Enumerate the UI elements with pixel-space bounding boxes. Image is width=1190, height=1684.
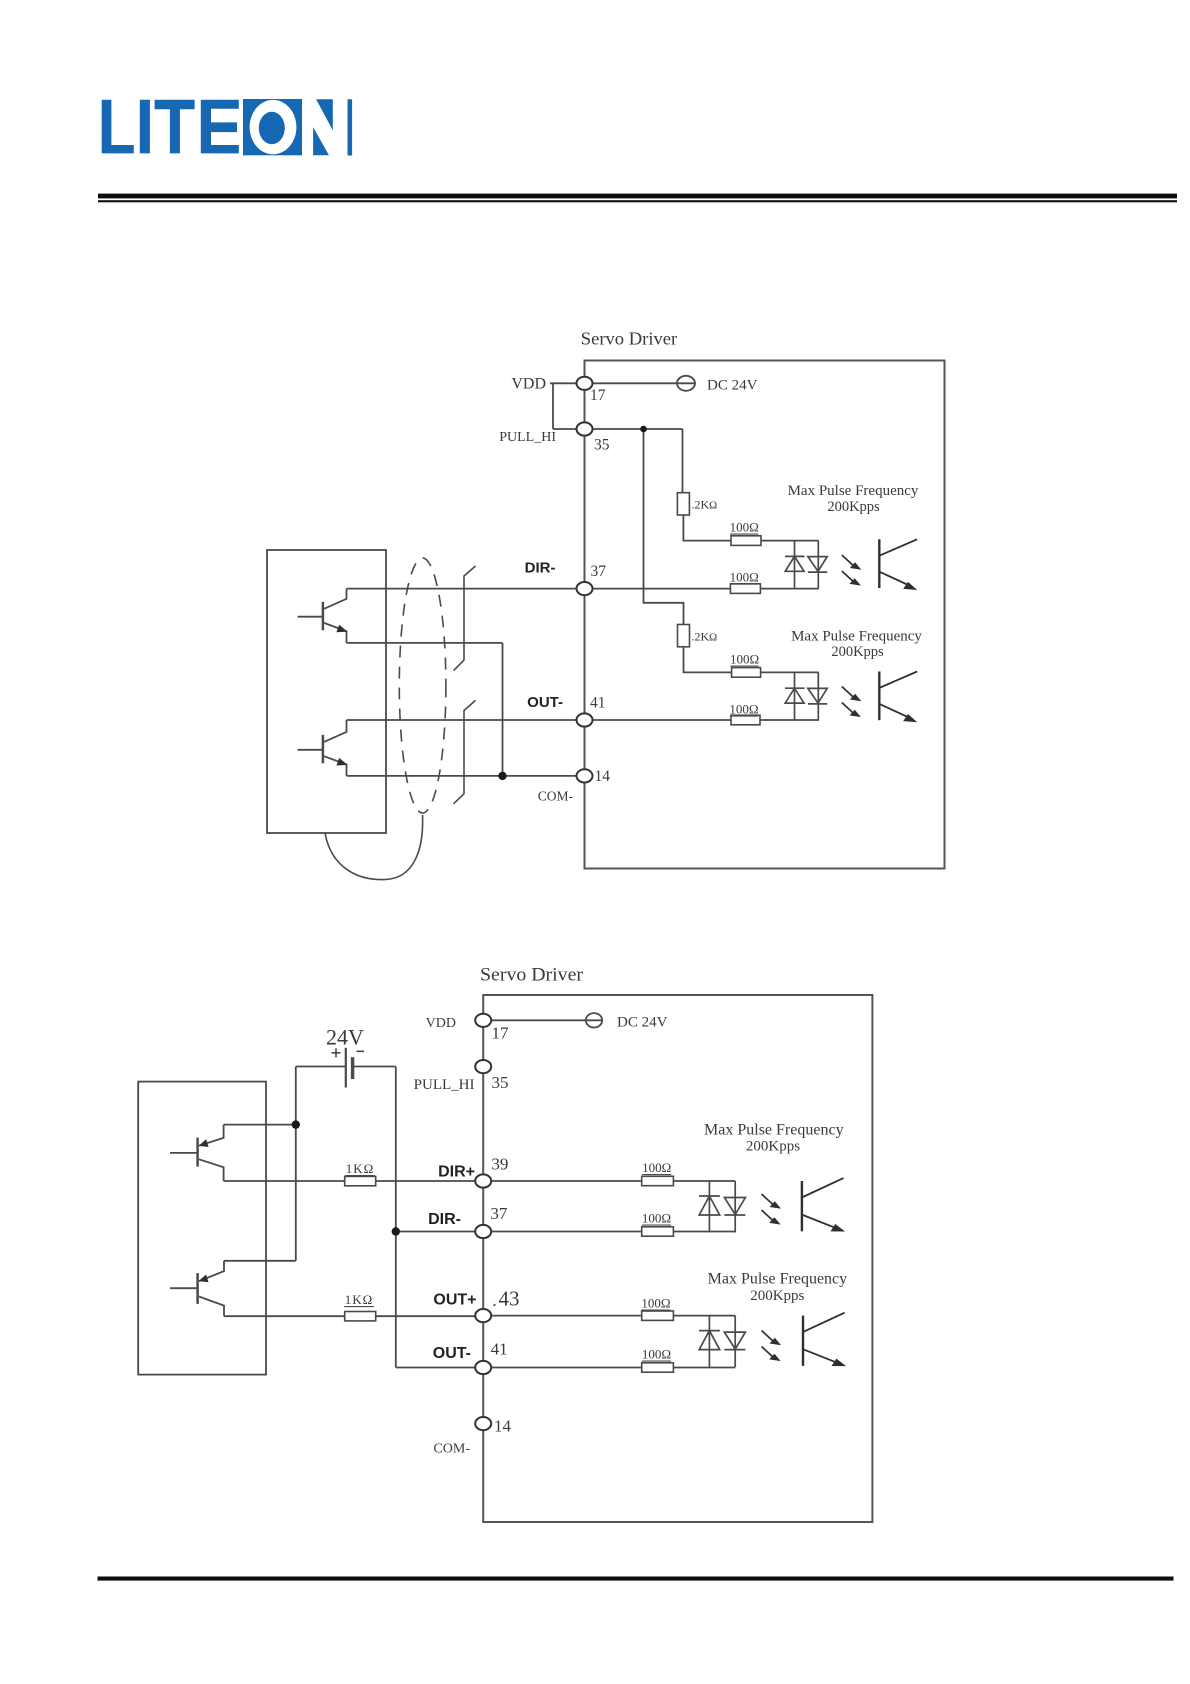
svg-text:100Ω: 100Ω (642, 1347, 671, 1362)
svg-text:100Ω: 100Ω (729, 702, 758, 717)
svg-text:14: 14 (494, 1417, 512, 1436)
svg-text:Servo Driver: Servo Driver (581, 329, 678, 349)
svg-text:PULL_HI: PULL_HI (414, 1077, 475, 1093)
svg-text:DC 24V: DC 24V (707, 378, 758, 394)
svg-text:Max Pulse Frequency: Max Pulse Frequency (788, 483, 919, 499)
svg-text:100Ω: 100Ω (641, 1296, 670, 1311)
svg-text:41: 41 (590, 695, 606, 712)
svg-text:PULL_HI: PULL_HI (499, 430, 556, 445)
svg-text:Max Pulse Frequency: Max Pulse Frequency (791, 629, 922, 645)
svg-text:41: 41 (491, 1340, 508, 1359)
svg-text:100Ω: 100Ω (730, 520, 759, 535)
svg-text:.2K: .2K (692, 498, 710, 512)
svg-text:Max Pulse Frequency: Max Pulse Frequency (708, 1271, 848, 1288)
svg-text:14: 14 (595, 768, 611, 785)
svg-text:DIR-: DIR- (525, 560, 556, 577)
svg-text:VDD: VDD (426, 1016, 456, 1031)
svg-text:OUT+: OUT+ (433, 1292, 476, 1309)
svg-text:DIR+: DIR+ (438, 1164, 475, 1181)
svg-text:1KΩ: 1KΩ (346, 1161, 375, 1176)
svg-text:37: 37 (490, 1204, 508, 1223)
svg-text:200Kpps: 200Kpps (746, 1139, 800, 1155)
svg-text:.2K: .2K (692, 630, 710, 644)
svg-text:200Kpps: 200Kpps (827, 499, 880, 515)
svg-text:100Ω: 100Ω (730, 652, 759, 667)
svg-text:OUT-: OUT- (527, 694, 563, 711)
svg-text:COM-: COM- (538, 789, 574, 804)
svg-text:1KΩ: 1KΩ (345, 1292, 374, 1307)
svg-text:Ω: Ω (709, 632, 717, 644)
svg-text:17: 17 (492, 1024, 510, 1043)
svg-text:Max Pulse Frequency: Max Pulse Frequency (704, 1122, 844, 1139)
svg-text:100Ω: 100Ω (642, 1160, 671, 1175)
svg-text:17: 17 (590, 387, 606, 404)
svg-text:35: 35 (492, 1073, 509, 1092)
svg-text:VDD: VDD (511, 376, 546, 393)
svg-text:Servo Driver: Servo Driver (480, 965, 584, 986)
svg-text:43: 43 (499, 1287, 520, 1311)
svg-text:DIR-: DIR- (428, 1211, 461, 1228)
svg-text:39: 39 (491, 1155, 508, 1174)
svg-text:200Kpps: 200Kpps (831, 644, 884, 660)
svg-text:DC 24V: DC 24V (617, 1015, 668, 1031)
svg-text:OUT-: OUT- (433, 1345, 471, 1362)
svg-text:100Ω: 100Ω (642, 1211, 671, 1226)
svg-text:Ω: Ω (709, 500, 717, 512)
svg-text:COM-: COM- (433, 1442, 470, 1457)
svg-text:35: 35 (594, 437, 610, 454)
svg-text:24V: 24V (326, 1025, 364, 1050)
svg-text:200Kpps: 200Kpps (750, 1288, 804, 1304)
svg-text:100Ω: 100Ω (730, 570, 759, 585)
svg-text:37: 37 (591, 563, 607, 580)
